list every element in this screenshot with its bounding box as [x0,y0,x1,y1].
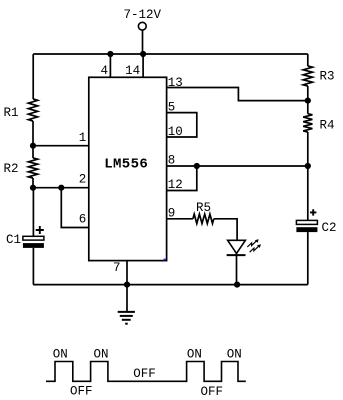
svg-text:R5: R5 [196,201,211,215]
svg-text:R1: R1 [4,106,19,120]
wire pin 8 [167,165,308,167]
resistor R1 [28,99,37,121]
wire pin 4 [109,54,111,77]
node R2/C1/pin2 junction [30,185,36,191]
svg-text:10: 10 [168,125,183,139]
capacitor C2 [296,209,317,232]
ground [118,312,135,324]
node LED/bottom bus junction [234,282,240,288]
svg-text:C1: C1 [6,233,21,247]
wire pin 5 to pin 10 loop [167,113,197,137]
node R1/R2/pin1 junction [30,143,36,149]
wire pin 13 [167,88,308,101]
node R3/R4/pin13 junction [305,98,311,104]
svg-text:ON: ON [227,347,242,361]
svg-text:13: 13 [168,76,183,90]
wire pin 14 [142,54,144,77]
wire right rail top [307,54,309,66]
svg-text:12: 12 [168,178,183,192]
svg-text:R2: R2 [4,162,19,176]
wire node to C2 [307,166,309,220]
svg-text:C2: C2 [322,221,337,235]
wire R1 to node [32,121,34,146]
wire R4 to node [307,132,309,166]
node pin8/pin12 junction [194,163,200,169]
wire supply drop [142,30,144,54]
wire pin 7 [126,261,128,285]
waveform trace [46,362,246,382]
wire node to C1 [32,188,34,237]
wire pin 9 [167,218,193,220]
resistor R3 [303,66,312,86]
resistor R4 [303,114,312,132]
svg-text:OFF: OFF [70,384,93,398]
wire pin 2 [33,187,89,189]
capacitor C1 [23,226,44,248]
svg-text:LM556: LM556 [104,157,148,173]
node 7-12V supply terminal [138,22,146,30]
svg-text:ON: ON [53,347,68,361]
node pin4/bus junction [107,51,113,57]
node supply/pin14 junction [140,51,146,57]
wire pin 6 branch [61,188,89,228]
wire ground stem [126,285,128,311]
wire R5 to LED [214,219,237,241]
svg-text:6: 6 [79,212,87,226]
wire pin 12 branch [167,166,197,191]
wire left rail upper [32,54,34,99]
svg-text:4: 4 [100,64,108,78]
svg-text:R3: R3 [320,70,335,84]
svg-text:1: 1 [79,131,87,145]
wire C2 to bottom bus [307,232,309,285]
svg-text:OFF: OFF [200,385,223,399]
wire node to R4 [307,101,309,114]
wire C1 to bottom bus [32,248,34,285]
wire bottom bus [33,284,308,286]
wire pin 1 [33,145,89,147]
node pin2/pin6 junction [58,185,64,191]
svg-text:8: 8 [168,153,176,167]
LED D1 [227,239,261,255]
svg-text:5: 5 [168,101,176,115]
wire node to R2 [32,146,34,158]
wire R2 to node [32,178,34,188]
node pin7/ground junction [124,282,130,288]
svg-text:ON: ON [187,347,202,361]
node R4/C2/pin8 junction [305,163,311,169]
resistor R5 [193,214,214,223]
svg-text:7-12V: 7-12V [124,8,162,22]
svg-text:ON: ON [93,347,108,361]
wire LED to bottom bus [236,254,238,285]
svg-text:7: 7 [113,261,121,275]
svg-text:R4: R4 [320,118,335,132]
wire R3 to node [307,86,309,101]
svg-text:14: 14 [125,64,140,78]
svg-text:OFF: OFF [133,367,156,381]
svg-text:2: 2 [79,173,87,187]
resistor R2 [28,158,37,178]
wire top bus [33,53,308,55]
svg-text:9: 9 [168,207,176,221]
op-amp U1 LM556 IC body [89,77,167,260]
